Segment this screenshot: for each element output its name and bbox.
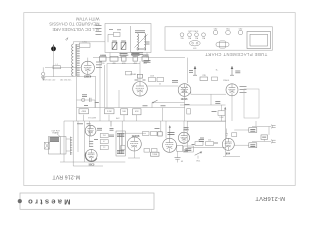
svg-text:100K: 100K	[150, 75, 155, 77]
svg-text:270: 270	[202, 75, 206, 77]
svg-text:B+: B+	[216, 70, 219, 72]
svg-text:05: 05	[159, 84, 161, 86]
svg-text:TONE: TONE	[152, 154, 158, 156]
svg-text:M-216RVT: M-216RVT	[255, 195, 285, 201]
svg-text:12A: 12A	[202, 37, 206, 40]
svg-text:AVC: AVC	[116, 117, 120, 120]
svg-text:TRANS: TRANS	[52, 132, 59, 135]
svg-text:A0 130 46 L: A0 130 46 L	[60, 79, 72, 82]
svg-text:WITH VTVM: WITH VTVM	[75, 17, 99, 22]
svg-text:50C5: 50C5	[89, 164, 95, 167]
svg-text:6X4: 6X4	[193, 48, 196, 50]
svg-text:1ST IF: 1ST IF	[123, 55, 129, 57]
svg-text:2ND IF: 2ND IF	[143, 55, 150, 57]
svg-text:220: 220	[208, 140, 211, 142]
svg-text:2.2M: 2.2M	[107, 111, 112, 113]
svg-text:150: 150	[103, 135, 106, 137]
svg-text:Maestro: Maestro	[26, 198, 71, 207]
svg-text:VOL: VOL	[196, 161, 201, 163]
svg-text:TUBE PLACEMENT CHART: TUBE PLACEMENT CHART	[205, 52, 267, 57]
svg-text:455: 455	[122, 63, 126, 65]
svg-text:12AT7 12AU6: 12AT7 12AU6	[188, 30, 199, 33]
svg-text:ANT U01 L02: ANT U01 L02	[43, 79, 56, 82]
svg-text:MEASURED TO CHASSIS: MEASURED TO CHASSIS	[49, 21, 99, 26]
svg-text:M-216 RVT: M-216 RVT	[52, 174, 80, 180]
svg-text:12AU6: 12AU6	[132, 135, 140, 138]
svg-text:455: 455	[134, 63, 138, 65]
svg-text:12A: 12A	[195, 37, 199, 40]
svg-text:47: 47	[103, 141, 105, 143]
svg-text:ALL DC VOLTAGES ARE: ALL DC VOLTAGES ARE	[52, 27, 99, 32]
svg-text:100K: 100K	[219, 117, 224, 119]
svg-text:6AQ: 6AQ	[226, 27, 230, 30]
svg-text:6X4: 6X4	[226, 152, 231, 155]
svg-text:6AQ: 6AQ	[239, 27, 243, 30]
svg-text:47K: 47K	[135, 111, 139, 113]
svg-text:12BE6: 12BE6	[84, 76, 92, 79]
svg-text:05: 05	[181, 161, 184, 163]
svg-text:455: 455	[101, 63, 105, 65]
svg-text:455: 455	[144, 63, 148, 65]
svg-text:VOLUME: VOLUME	[88, 118, 97, 120]
svg-text:12A: 12A	[188, 37, 192, 40]
svg-text:10K: 10K	[122, 111, 126, 113]
svg-text:12A: 12A	[180, 37, 184, 40]
svg-text:470K: 470K	[81, 111, 86, 113]
svg-text:6AQ: 6AQ	[214, 27, 218, 30]
svg-text:22: 22	[103, 147, 105, 149]
svg-text:12AU6: 12AU6	[223, 79, 230, 82]
svg-text:455: 455	[112, 63, 116, 65]
